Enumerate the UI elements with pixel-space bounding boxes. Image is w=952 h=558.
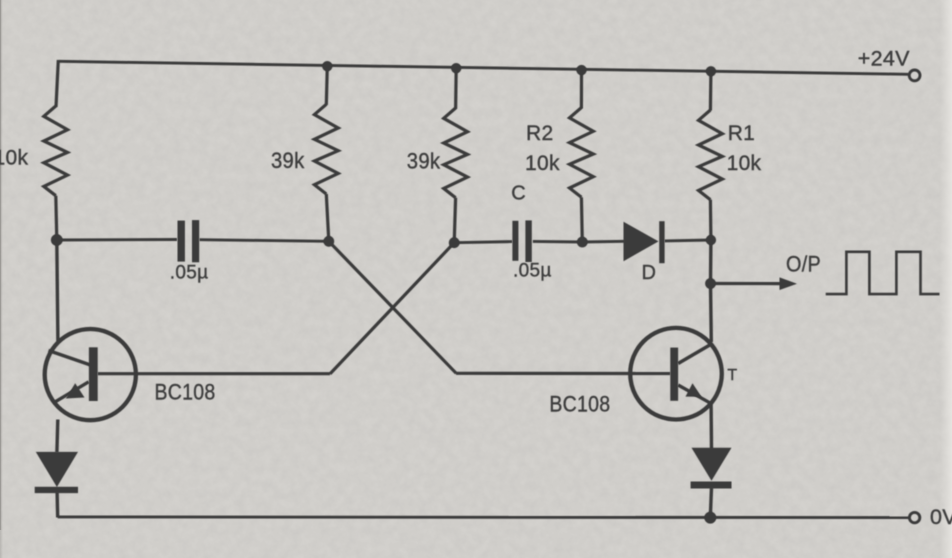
svg-text:BC108: BC108 xyxy=(549,391,610,416)
svg-text:R2: R2 xyxy=(526,122,553,145)
svg-text:.05µ: .05µ xyxy=(513,260,552,281)
svg-text:R1: R1 xyxy=(728,122,755,145)
svg-text:D: D xyxy=(642,262,657,284)
svg-text:0V: 0V xyxy=(930,505,952,529)
svg-text:10k: 10k xyxy=(0,147,28,170)
svg-text:39k: 39k xyxy=(271,148,305,173)
svg-text:.05µ: .05µ xyxy=(170,263,209,284)
svg-text:O/P: O/P xyxy=(786,252,821,277)
svg-text:T: T xyxy=(727,367,737,384)
svg-text:BC108: BC108 xyxy=(155,380,216,405)
svg-text:+24V: +24V xyxy=(858,47,910,71)
svg-text:10k: 10k xyxy=(727,152,762,175)
svg-text:C: C xyxy=(511,182,526,204)
svg-text:10k: 10k xyxy=(525,152,560,175)
svg-text:39k: 39k xyxy=(407,148,441,173)
